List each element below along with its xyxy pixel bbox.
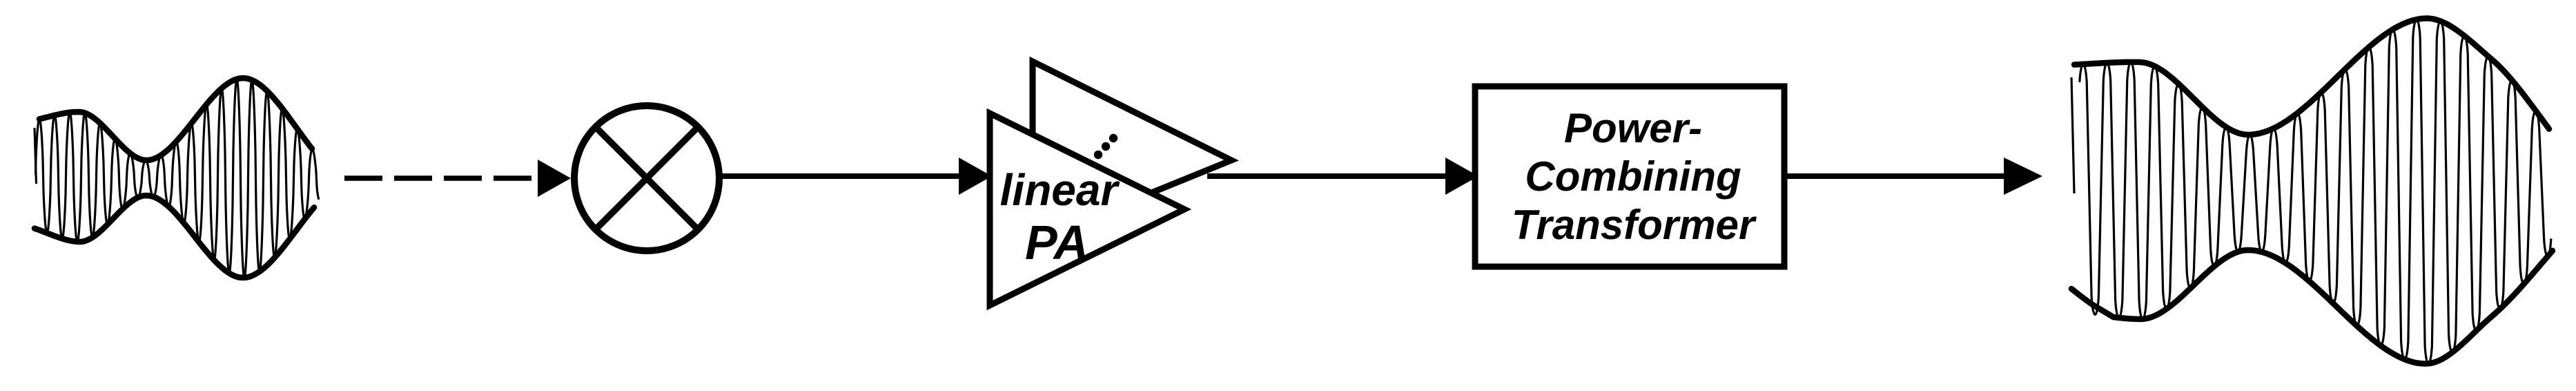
svg-text:Transformer: Transformer — [1512, 202, 1757, 248]
svg-text:linear: linear — [1000, 165, 1120, 215]
svg-text:Power-: Power- — [1564, 105, 1702, 151]
svg-text:PA: PA — [1025, 216, 1089, 269]
svg-text:Combining: Combining — [1525, 153, 1741, 200]
